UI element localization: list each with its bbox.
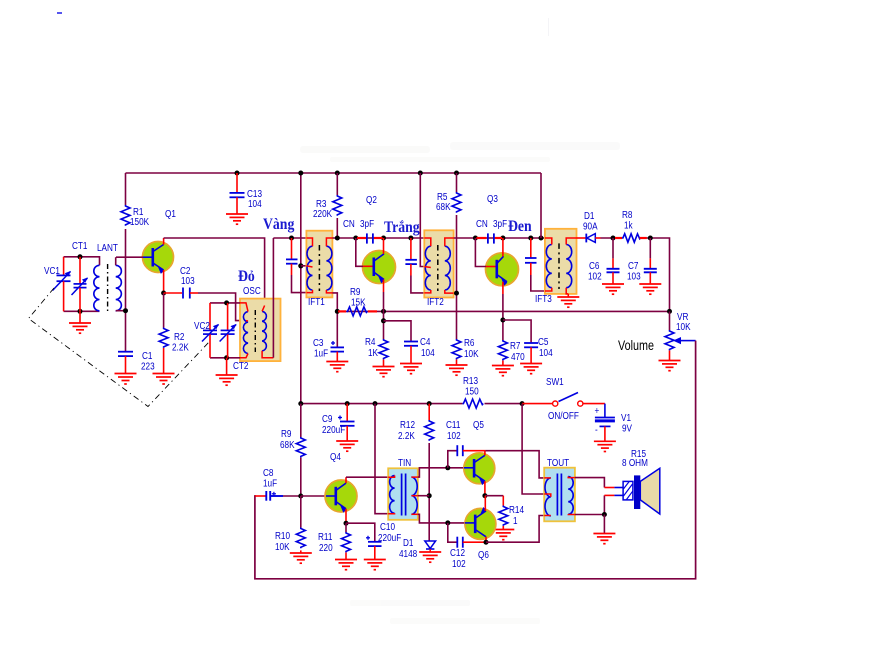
transformer LANT (antenna coil) [94, 241, 126, 312]
transistor Q4 [325, 450, 357, 523]
faint smudge marks [300, 18, 620, 624]
ground under C5 [520, 364, 542, 374]
svg-text:TOUT: TOUT [547, 456, 569, 468]
transformer OSC box (CT2) [233, 284, 281, 371]
node Q1 emitter junction [161, 291, 166, 296]
ground under C13 [226, 214, 248, 224]
ground under C3 [326, 362, 348, 372]
node TIN center tap / R12 [427, 493, 432, 498]
wire TOUT to speaker top [575, 478, 623, 488]
svg-text:3pF: 3pF [493, 217, 507, 229]
svg-text:IFT3: IFT3 [535, 292, 552, 304]
node dots Q3 stage [473, 236, 544, 241]
svg-text:104: 104 [421, 346, 435, 358]
svg-text:102: 102 [452, 557, 466, 569]
wire IFT2 to IFT3 (Q3 stage, y=238) [454, 237, 545, 239]
node VR top [667, 309, 672, 314]
variable capacitor VC2 rectangle [210, 303, 240, 358]
svg-text:150K: 150K [130, 215, 150, 227]
wire AGC/volume bus y=311.4 [337, 310, 669, 312]
transformer IFT2 box [424, 230, 453, 307]
svg-text:2.2K: 2.2K [172, 340, 189, 352]
svg-text:Q6: Q6 [478, 548, 489, 560]
svg-text:Q3: Q3 [487, 192, 498, 204]
svg-text:103: 103 [181, 274, 195, 286]
wire volume wiper to audio input loop [255, 341, 696, 579]
svg-text:Volume: Volume [618, 338, 654, 353]
capacitor IFT1 tuning [286, 238, 306, 293]
svg-text:103: 103 [627, 269, 641, 281]
ground under R4 [373, 367, 395, 377]
potentiometer VR 10K (volume) [618, 310, 696, 360]
wire Q2 emitter to R4 [383, 292, 385, 339]
capacitor C8 1uF [255, 466, 301, 501]
ground under C9 [336, 441, 358, 451]
resistor R13 150 [462, 374, 483, 408]
battery V1 9V [595, 404, 633, 441]
ground under C1 [115, 374, 137, 385]
node junction dots on top bus [235, 171, 460, 176]
svg-text:CT2: CT2 [233, 359, 248, 371]
node C8 / R9 / base junction [298, 494, 303, 499]
transistor Q5 [464, 418, 495, 496]
svg-text:Q1: Q1 [165, 207, 176, 219]
node dots CT1 [78, 254, 83, 314]
svg-text:Đen: Đen [508, 218, 532, 235]
svg-text:104: 104 [539, 346, 553, 358]
svg-text:2.2K: 2.2K [398, 429, 415, 441]
wire TIN center tap [418, 495, 429, 497]
resistor R7 470 [498, 294, 524, 365]
resistor R1 150K [121, 173, 150, 351]
stray blue mark top left [57, 12, 62, 14]
svg-text:Trắng: Trắng [384, 219, 420, 236]
svg-text:Đỏ: Đỏ [238, 268, 255, 285]
wire VCC rail vertical (top bus to lower bus) [300, 173, 302, 404]
capacitor C4 104 [384, 321, 435, 363]
wire IFT1 input (y=238) [273, 237, 306, 239]
wire Q1 collector to OSC [164, 238, 265, 306]
wire Q1 base [116, 256, 143, 258]
svg-text:1k: 1k [624, 218, 633, 230]
transistor Q2 [356, 193, 396, 292]
svg-text:3pF: 3pF [360, 217, 374, 229]
resistor R12 2.2K [398, 404, 434, 541]
svg-text:VC2: VC2 [194, 319, 210, 331]
resistor R2 2.2K [159, 293, 189, 373]
diode D1 4148 [399, 536, 436, 559]
node dots VC2 [224, 300, 229, 360]
capacitor C2 103 (coupling) [164, 264, 198, 299]
svg-text:470: 470 [511, 350, 525, 362]
resistor R11 220 [318, 523, 351, 559]
wire TOUT to speaker bottom [575, 495, 623, 514]
node dots on AGC bus [335, 309, 386, 314]
svg-text:LANT: LANT [97, 241, 118, 253]
ground under C4 [400, 364, 422, 374]
resistor R3 220K [313, 173, 342, 238]
capacitor C11 102 [446, 418, 485, 468]
capacitor C10 220uF [346, 520, 401, 559]
svg-text:ON/OFF: ON/OFF [548, 409, 579, 421]
resistor R4 1K [365, 335, 388, 366]
transformer IFT3 box [535, 229, 577, 304]
capacitor C13 [230, 173, 263, 214]
svg-text:-: - [595, 423, 598, 435]
ground under VC2 [216, 358, 238, 385]
transistor Q1 [143, 207, 176, 293]
node dots Q2 stage [335, 236, 414, 241]
svg-text:68K: 68K [436, 200, 451, 212]
svg-text:Vàng: Vàng [263, 216, 295, 233]
transformer IFT1 box [306, 231, 332, 308]
ground under D1 [419, 552, 441, 562]
capacitor IFT2 tuning [405, 238, 424, 293]
ground under R10 [290, 553, 312, 563]
ground under speaker [593, 515, 615, 544]
wire TIN to Q5 base [418, 468, 464, 477]
svg-text:220uF: 220uF [322, 423, 345, 435]
svg-text:Q5: Q5 [473, 418, 484, 430]
dash-dot gang line VC1-VC2 [29, 288, 211, 407]
trimmer capacitor VC2a [194, 303, 219, 358]
svg-text:OSC: OSC [243, 284, 261, 296]
node IFT1 center tap on rail [298, 263, 303, 268]
svg-text:Q2: Q2 [366, 193, 377, 205]
capacitor C5 104 [503, 320, 553, 363]
ground under R7 [492, 366, 514, 376]
ground under R2 [153, 374, 175, 385]
diode D1 90A [583, 209, 601, 242]
trimmer capacitor VC2b [220, 303, 237, 358]
svg-text:CT1: CT1 [72, 239, 87, 251]
resistor R10 10K [275, 496, 305, 553]
transformer TOUT box [544, 456, 575, 521]
ground under VR [659, 361, 681, 371]
label Do (red osc coil) [238, 268, 255, 285]
variable capacitor VC1 [44, 257, 71, 312]
wire detector output (y=238 right) [577, 238, 670, 311]
label Den [508, 218, 532, 235]
svg-text:Q4: Q4 [330, 450, 341, 462]
node dots C6 C7 [611, 236, 653, 241]
node Q3 emitter / C5 junction [500, 318, 505, 323]
capacitor C12 102 [448, 523, 486, 569]
transistor Q6 [465, 496, 496, 561]
svg-text:IFT2: IFT2 [427, 295, 444, 307]
wire Q4 collector to TIN [346, 476, 388, 478]
ground under IFT3 [557, 294, 579, 307]
svg-text:CN: CN [343, 217, 355, 229]
svg-text:1: 1 [513, 514, 518, 526]
label Trang [384, 219, 420, 236]
svg-text:220: 220 [319, 541, 333, 553]
wire IFT2 center tap from top bus [420, 173, 424, 267]
svg-text:1K: 1K [368, 346, 379, 358]
wire TIN to Q6 base [418, 514, 465, 523]
svg-text:104: 104 [248, 197, 262, 209]
wire OSC secondary bottom riser to IFT1 feed [272, 238, 274, 358]
wire Q6 to TOUT bottom [486, 516, 544, 543]
svg-text:220uF: 220uF [378, 531, 401, 543]
svg-text:+: + [595, 404, 600, 416]
node dots supply bus [298, 401, 524, 406]
capacitor CN 3pF (Q2 feedback) [343, 217, 383, 244]
svg-text:CN: CN [476, 217, 488, 229]
node Q6 collector / C12 [484, 540, 489, 545]
svg-text:15K: 15K [351, 295, 366, 307]
ground under C7 [639, 284, 661, 294]
wire top bus right end drop [540, 173, 542, 238]
node IFT1 cap top [289, 236, 294, 241]
wire C2 to OSC tap [198, 293, 246, 321]
capacitor IFT3 tuning [525, 238, 545, 291]
svg-text:223: 223 [141, 359, 155, 371]
svg-text:4148: 4148 [399, 547, 417, 559]
svg-text:8 OHM: 8 OHM [622, 456, 648, 468]
svg-text:102: 102 [588, 269, 602, 281]
svg-text:68K: 68K [280, 438, 295, 450]
wire IFT1 center tap [301, 265, 307, 267]
resistor R9 15K (in AGC bus) [338, 285, 377, 316]
wire supply to TIN primary bottom [375, 404, 388, 514]
ground under CT1 [69, 311, 91, 333]
node Q2 emitter / C4 junction [381, 318, 386, 323]
svg-text:9V: 9V [622, 421, 633, 433]
capacitor C1 223 [118, 349, 155, 373]
svg-text:10K: 10K [676, 320, 691, 332]
trimmer capacitor CT1 [72, 239, 88, 311]
svg-text:IFT1: IFT1 [308, 295, 325, 307]
resistor R5 68K [436, 173, 461, 339]
svg-text:10K: 10K [275, 540, 290, 552]
ground under battery [594, 441, 616, 451]
svg-text:150: 150 [465, 384, 479, 396]
svg-text:220K: 220K [313, 207, 333, 219]
svg-text:10K: 10K [464, 347, 479, 359]
transistor Q3 [475, 192, 518, 294]
node speaker ground junction [602, 512, 607, 517]
capacitor CN 3pF (Q3 feedback) [476, 217, 507, 244]
capacitor C6 102 [588, 238, 620, 284]
resistor R6 10K [452, 336, 479, 365]
node LANT/R1/C1 junction [123, 308, 128, 313]
wire IFT1 to IFT2 (Q2 stage, y=238) [332, 237, 424, 239]
wire supply bus y=403.6 [301, 403, 522, 405]
svg-text:VC1: VC1 [44, 264, 60, 276]
label Vang [263, 216, 295, 233]
wire Q5 collector to TOUT top [485, 451, 544, 478]
node IFT2 secondary bottom / R6 [454, 291, 459, 296]
svg-text:90A: 90A [583, 219, 598, 231]
resistor R14 1 [485, 496, 524, 529]
resistor R8 1k [615, 208, 647, 242]
ground under R6 [446, 365, 468, 375]
capacitor C3 1uF [313, 293, 344, 361]
ground under C6 [602, 284, 624, 294]
node dots Q5/Q6 base [445, 465, 450, 525]
ground under C10 [364, 560, 386, 570]
wire supply to TOUT center tap [522, 404, 544, 494]
wire VCC top bus [126, 172, 542, 174]
svg-text:1uF: 1uF [263, 476, 277, 488]
capacitor C9 220uF [322, 404, 355, 441]
svg-text:TIN: TIN [398, 456, 411, 468]
node Q5 emitter / Q6 / R14 [482, 493, 487, 498]
transformer TIN box [388, 456, 418, 520]
capacitor C7 103 [627, 238, 657, 284]
ground under R11 [335, 560, 357, 570]
svg-text:1uF: 1uF [314, 346, 328, 358]
wire to Q4 base [301, 495, 326, 497]
svg-text:102: 102 [447, 429, 461, 441]
svg-text:SW1: SW1 [546, 375, 564, 387]
ground under R14 [492, 530, 514, 540]
switch SW1 ON/OFF [522, 375, 605, 421]
node Q4 emitter junction [344, 521, 349, 526]
CT1 / VC1 tank rectangle wires [64, 257, 100, 312]
resistor R9 68K (bias) [280, 404, 305, 496]
speaker R15 8 OHM [622, 447, 660, 514]
